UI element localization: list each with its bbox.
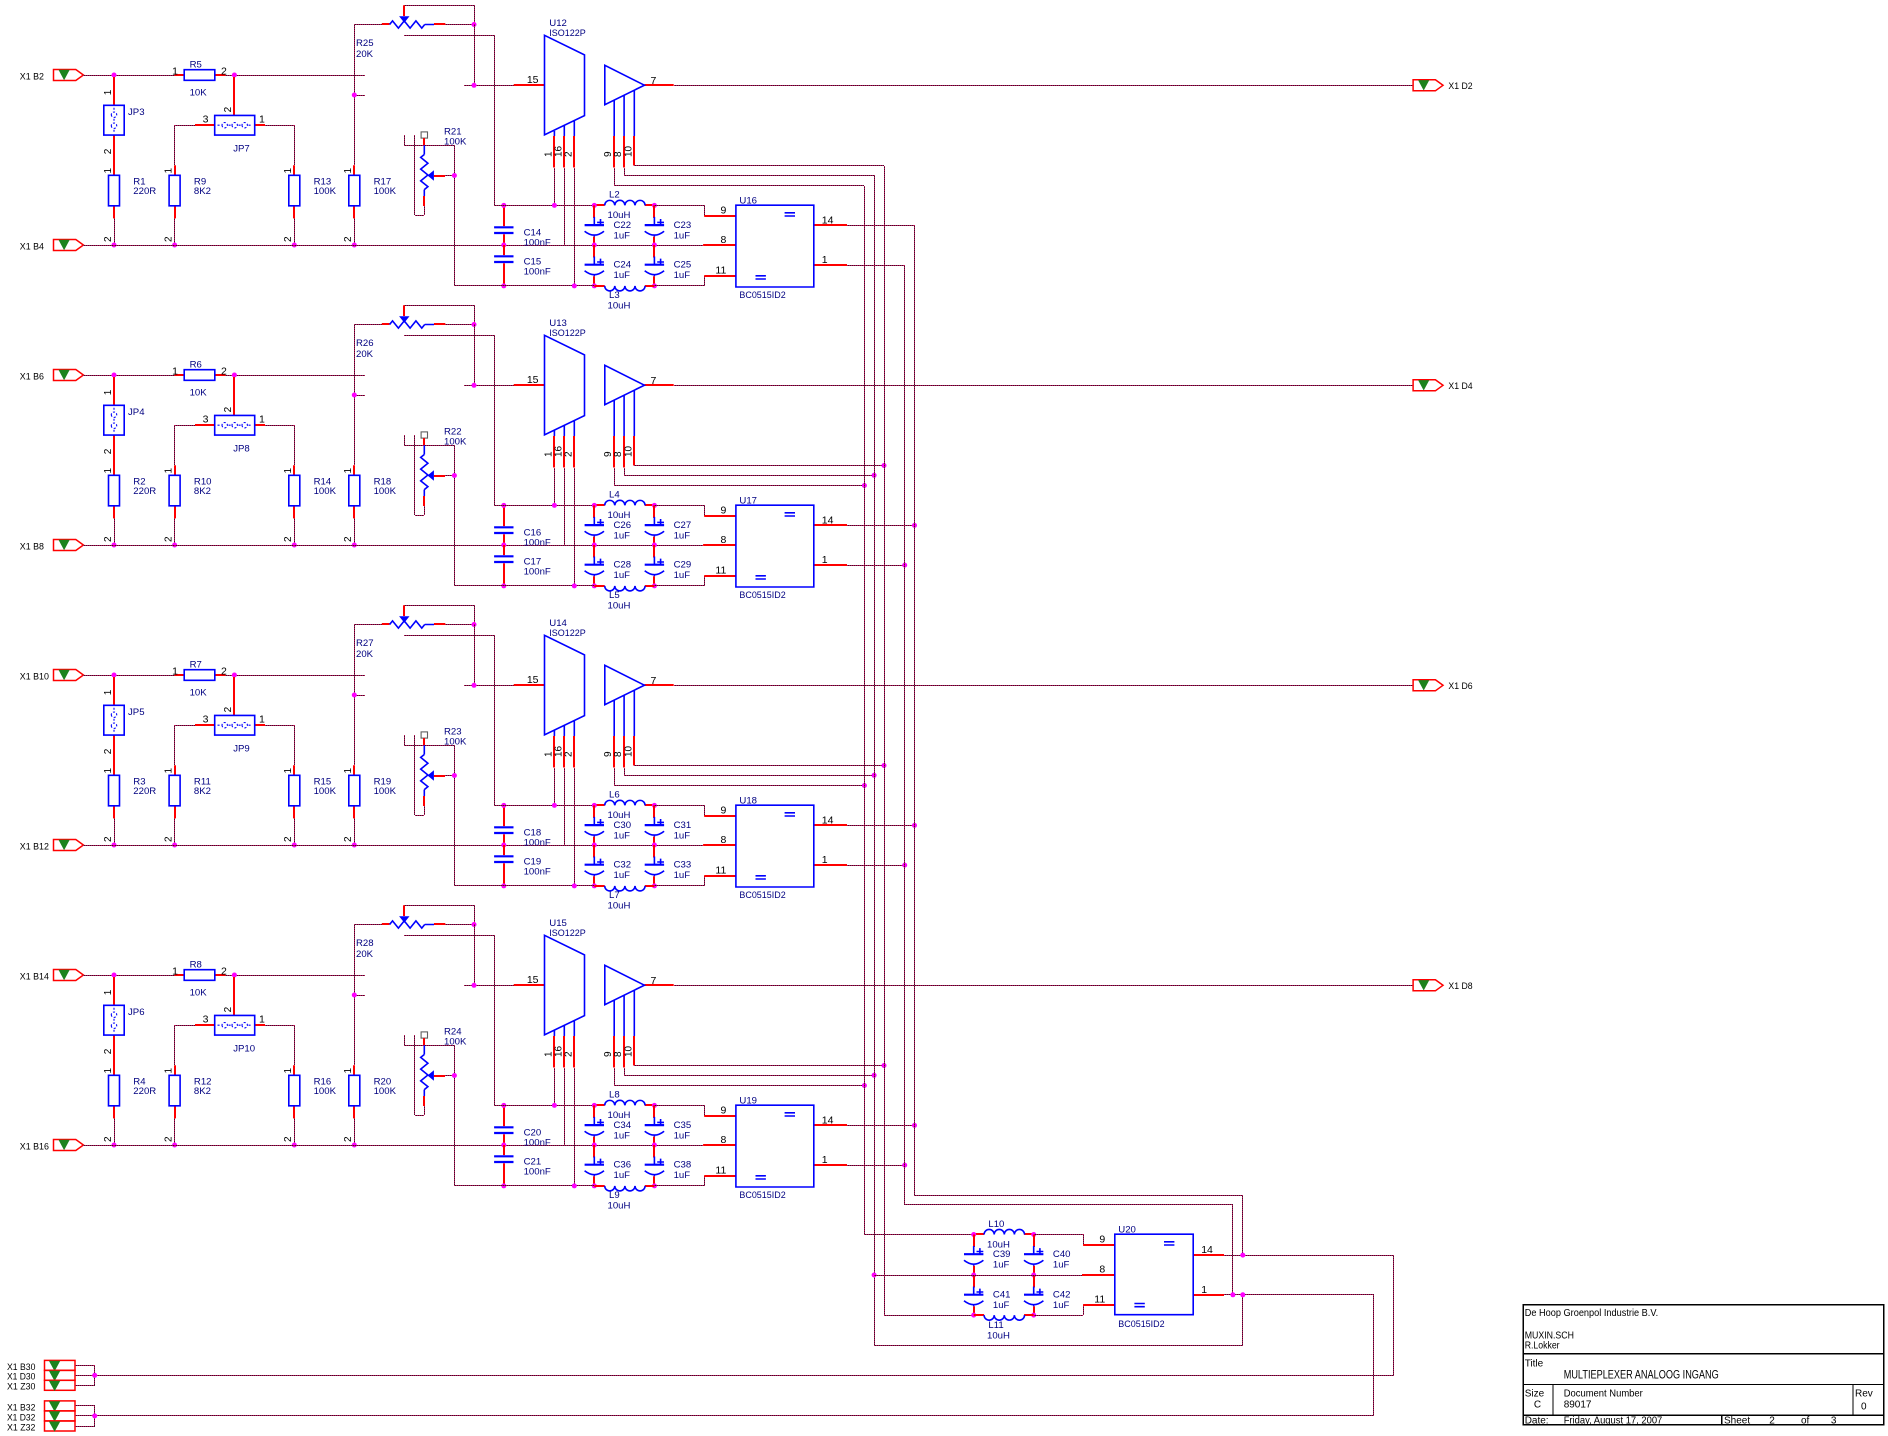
wire bus net pin14 vertical — [914, 225, 1243, 1255]
svg-text:1uF: 1uF — [993, 1260, 1010, 1271]
label X1 B2 — [20, 71, 44, 82]
svg-text:10uH: 10uH — [608, 601, 631, 612]
svg-text:100nF: 100nF — [524, 1167, 551, 1178]
svg-text:BC0515ID2: BC0515ID2 — [739, 1190, 785, 1201]
svg-text:220R: 220R — [133, 1086, 156, 1097]
capacitor C25 — [645, 245, 692, 288]
svg-text:L4: L4 — [609, 490, 620, 501]
svg-text:11: 11 — [715, 865, 726, 877]
svg-text:220R: 220R — [133, 186, 156, 197]
wire group B32 tie — [75, 1406, 97, 1427]
svg-text:20K: 20K — [356, 49, 374, 60]
svg-text:20K: 20K — [356, 649, 374, 660]
svg-text:MULTIEPLEXER ANALOOG INGANG: MULTIEPLEXER ANALOOG INGANG — [1564, 1369, 1719, 1381]
svg-text:2: 2 — [221, 365, 227, 377]
svg-text:L2: L2 — [609, 190, 620, 201]
wire net X1 D30 row — [95, 1255, 1394, 1376]
wire net X1 B6 row — [83, 373, 365, 378]
svg-text:100nF: 100nF — [524, 267, 551, 278]
svg-text:of: of — [1801, 1416, 1810, 1427]
svg-text:8K2: 8K2 — [194, 1086, 211, 1097]
svg-text:1uF: 1uF — [674, 870, 691, 881]
wire pot junction to U pin15 (block 4) — [464, 924, 514, 988]
connector X1 B12 — [54, 840, 84, 851]
svg-text:Document Number: Document Number — [1564, 1388, 1644, 1399]
svg-text:Title: Title — [1525, 1358, 1544, 1369]
connector X1 B8 — [54, 540, 84, 551]
dc-dc converter U17 wiring — [654, 495, 917, 601]
svg-text:2: 2 — [223, 406, 234, 412]
wire row C block 3 — [454, 883, 594, 888]
capacitor C36 — [585, 1145, 632, 1188]
svg-text:C30: C30 — [614, 820, 632, 831]
svg-text:2: 2 — [103, 1048, 114, 1054]
svg-text:2: 2 — [343, 536, 354, 542]
inductor L5 — [594, 586, 654, 612]
inductor L9 — [594, 1186, 654, 1212]
svg-text:ISO122P: ISO122P — [549, 28, 586, 39]
svg-text:7: 7 — [651, 675, 657, 687]
svg-text:JP5: JP5 — [128, 707, 145, 718]
connector X1 D2 — [1413, 80, 1443, 91]
svg-text:15: 15 — [527, 974, 539, 986]
svg-text:7: 7 — [651, 75, 657, 87]
op-amp U15 — [514, 918, 674, 1186]
svg-text:1uF: 1uF — [614, 570, 631, 581]
svg-text:2: 2 — [1769, 1416, 1775, 1427]
svg-text:8: 8 — [720, 234, 726, 246]
svg-text:JP4: JP4 — [128, 407, 145, 418]
svg-text:2: 2 — [343, 836, 354, 842]
capacitor C39 — [964, 1235, 1011, 1278]
svg-text:X1 B4: X1 B4 — [20, 241, 45, 252]
svg-text:10K: 10K — [190, 87, 208, 98]
svg-text:1: 1 — [259, 413, 265, 425]
svg-text:9: 9 — [720, 805, 726, 817]
connector X1 B6 — [54, 370, 84, 381]
svg-text:U17: U17 — [739, 495, 757, 506]
svg-text:C35: C35 — [674, 1120, 692, 1131]
label X1 D30 — [7, 1372, 35, 1382]
inductor L8 — [592, 1090, 657, 1122]
svg-text:15: 15 — [527, 674, 539, 686]
resistor R3 — [103, 775, 157, 847]
resistor R11 — [163, 775, 211, 847]
label X1 D32 — [7, 1412, 35, 1422]
svg-text:1: 1 — [283, 468, 294, 474]
svg-text:20K: 20K — [356, 949, 374, 960]
capacitor C26 — [585, 505, 632, 547]
wire row A block 3 — [494, 803, 594, 808]
svg-text:L6: L6 — [609, 790, 620, 801]
svg-text:10uH: 10uH — [608, 901, 631, 912]
wire row A block 1 — [494, 203, 594, 208]
label X1 B30 — [7, 1362, 35, 1372]
svg-text:X1 Z30: X1 Z30 — [7, 1382, 35, 1392]
svg-text:C23: C23 — [674, 220, 692, 231]
svg-text:3: 3 — [1831, 1416, 1837, 1427]
svg-text:C25: C25 — [674, 260, 692, 271]
jumper JP10 wiring — [163, 977, 294, 1075]
svg-text:JP3: JP3 — [128, 107, 145, 118]
svg-text:X1 B6: X1 B6 — [20, 371, 44, 382]
resistor R18 column — [343, 324, 397, 548]
svg-text:BC0515ID2: BC0515ID2 — [739, 290, 785, 301]
inductor L7 — [594, 886, 654, 912]
svg-text:1uF: 1uF — [614, 231, 631, 242]
connector X1 B32 — [45, 1401, 76, 1411]
svg-text:L9: L9 — [609, 1190, 620, 1201]
wire net X1 B2 row — [83, 73, 365, 78]
svg-text:1: 1 — [822, 554, 828, 566]
svg-text:1uF: 1uF — [614, 531, 631, 542]
svg-text:1: 1 — [343, 1068, 354, 1074]
resistor R15 — [283, 775, 337, 847]
resistor R19 column — [343, 624, 397, 848]
jumper JP3 — [103, 77, 145, 175]
label X1 B8 — [20, 541, 44, 552]
potentiometer R26 — [354, 305, 477, 360]
capacitor C22 — [585, 205, 632, 247]
wire bus net pin9 vertical — [864, 186, 974, 1235]
svg-text:1: 1 — [103, 989, 114, 995]
label X1 D6 — [1448, 681, 1472, 692]
resistor R20 column — [343, 924, 397, 1148]
svg-text:2: 2 — [163, 536, 174, 542]
svg-text:1uF: 1uF — [674, 231, 691, 242]
label X1 D4 — [1448, 381, 1473, 392]
svg-text:9: 9 — [720, 505, 726, 517]
resistor R1 — [103, 175, 157, 247]
wire net X1 D32 row — [95, 1295, 1374, 1416]
connector X1 D4 — [1413, 380, 1443, 391]
dc-dc converter U20 wiring — [1034, 1224, 1394, 1346]
wire pot junction to U pin15 (block 2) — [464, 324, 514, 388]
wire mid row filter — [874, 1275, 1082, 1277]
svg-text:R.Lokker: R.Lokker — [1525, 1341, 1560, 1352]
svg-text:De Hoop Groenpol Industrie B.V: De Hoop Groenpol Industrie B.V. — [1525, 1308, 1659, 1319]
svg-text:3: 3 — [203, 1013, 209, 1025]
svg-text:X1 B32: X1 B32 — [7, 1402, 35, 1412]
svg-text:U16: U16 — [739, 195, 757, 206]
svg-text:R27: R27 — [356, 638, 374, 649]
svg-text:100K: 100K — [374, 786, 397, 797]
svg-text:C22: C22 — [614, 220, 632, 231]
svg-text:JP9: JP9 — [233, 744, 250, 755]
label X1 B16 — [20, 1141, 49, 1152]
capacitor C18 — [494, 803, 551, 849]
potentiometer R21 100K — [421, 132, 427, 138]
svg-text:L8: L8 — [609, 1090, 620, 1101]
svg-text:3: 3 — [203, 413, 209, 425]
label X1 B6 — [20, 371, 44, 382]
capacitor C21 — [494, 1145, 551, 1188]
svg-text:100nF: 100nF — [524, 867, 551, 878]
svg-text:X1 B2: X1 B2 — [20, 71, 44, 82]
potentiometer R24 100K — [421, 1032, 427, 1038]
resistor R17 column — [343, 24, 397, 248]
svg-text:9: 9 — [720, 1105, 726, 1117]
svg-text:2: 2 — [563, 451, 574, 457]
wire U13 pins 9/8/10 to bus — [614, 463, 887, 488]
svg-text:L5: L5 — [609, 590, 620, 601]
potentiometer R23 100K — [421, 732, 427, 738]
svg-text:8: 8 — [720, 534, 726, 546]
svg-text:100K: 100K — [444, 437, 467, 448]
svg-text:Friday, August 17, 2007: Friday, August 17, 2007 — [1564, 1416, 1663, 1427]
svg-text:1: 1 — [283, 168, 294, 174]
svg-text:1uF: 1uF — [674, 1170, 691, 1181]
svg-text:2: 2 — [283, 536, 294, 542]
connector X1 B2 — [54, 70, 84, 81]
svg-text:X1 D4: X1 D4 — [1448, 381, 1473, 392]
svg-text:10: 10 — [623, 1045, 634, 1057]
svg-text:1uF: 1uF — [614, 1131, 631, 1142]
potentiometer R27 — [354, 605, 477, 660]
label X1 B12 — [20, 841, 49, 852]
wire group B30 tie — [75, 1365, 97, 1386]
svg-text:100nF: 100nF — [524, 1138, 551, 1149]
svg-text:2: 2 — [283, 236, 294, 242]
jumper JP4 — [103, 377, 145, 475]
svg-text:2: 2 — [163, 1136, 174, 1142]
resistor R5 — [172, 59, 227, 98]
inductor L2 — [592, 190, 657, 222]
inductor L6 — [592, 790, 657, 822]
wire U14 pins 9/8/10 to bus — [614, 763, 887, 788]
svg-text:1: 1 — [283, 768, 294, 774]
label X1 B14 — [20, 971, 50, 982]
svg-text:10: 10 — [623, 145, 634, 157]
svg-text:9: 9 — [1099, 1234, 1105, 1246]
svg-text:X1 D2: X1 D2 — [1448, 81, 1472, 92]
svg-text:1: 1 — [103, 168, 114, 174]
svg-text:X1 Z32: X1 Z32 — [7, 1422, 35, 1432]
svg-text:1: 1 — [259, 713, 265, 725]
capacitor C42 — [1024, 1275, 1071, 1318]
resistor R2 — [103, 475, 157, 547]
wire net X1 B8 row — [83, 545, 703, 547]
svg-text:R25: R25 — [356, 38, 374, 49]
svg-text:C26: C26 — [614, 520, 632, 531]
capacitor C40 — [1024, 1235, 1071, 1278]
svg-text:11: 11 — [715, 1165, 726, 1177]
wire U12 pins 9/8/10 to bus — [614, 166, 884, 187]
svg-text:JP8: JP8 — [233, 444, 250, 455]
svg-text:R5: R5 — [190, 59, 202, 70]
op-amp U14 — [514, 618, 674, 886]
svg-text:C33: C33 — [674, 860, 692, 871]
svg-text:1uF: 1uF — [614, 870, 631, 881]
label X1 D2 — [1448, 81, 1472, 92]
svg-text:2: 2 — [563, 1051, 574, 1057]
svg-text:2: 2 — [223, 1006, 234, 1012]
svg-text:JP7: JP7 — [233, 144, 250, 155]
svg-text:Date:: Date: — [1525, 1416, 1549, 1427]
title block text — [1525, 1308, 1873, 1427]
resistor R7 — [172, 659, 227, 698]
capacitor C15 — [494, 245, 551, 288]
svg-text:100K: 100K — [314, 786, 337, 797]
svg-text:BC0515ID2: BC0515ID2 — [739, 890, 785, 901]
svg-text:1: 1 — [343, 768, 354, 774]
inductor L3 — [594, 286, 654, 312]
svg-text:100K: 100K — [374, 1086, 397, 1097]
label X1 D8 — [1448, 981, 1472, 992]
svg-text:X1 D32: X1 D32 — [7, 1412, 35, 1422]
capacitor C17 — [494, 545, 551, 588]
svg-text:10K: 10K — [190, 687, 208, 698]
svg-text:X1 B30: X1 B30 — [7, 1362, 35, 1372]
svg-text:1: 1 — [163, 468, 174, 474]
svg-text:14: 14 — [822, 1114, 834, 1126]
svg-text:X1 B8: X1 B8 — [20, 541, 44, 552]
capacitor C31 — [645, 805, 692, 847]
title block — [1523, 1305, 1884, 1425]
potentiometer R23 wiring — [404, 727, 467, 886]
wire net X1 B16 row — [83, 1145, 703, 1147]
wire pot to row A (block 1) — [404, 35, 495, 205]
jumper JP7 wiring — [163, 77, 294, 175]
connector X1 B30 — [45, 1360, 76, 1370]
wire row A block 2 — [494, 503, 594, 508]
svg-text:1: 1 — [163, 168, 174, 174]
svg-text:1uF: 1uF — [614, 831, 631, 842]
svg-text:11: 11 — [715, 265, 726, 277]
capacitor C28 — [585, 545, 632, 588]
svg-text:1: 1 — [822, 1154, 828, 1166]
svg-text:1: 1 — [1201, 1284, 1207, 1296]
svg-text:1: 1 — [172, 365, 178, 377]
svg-text:X1 D30: X1 D30 — [7, 1372, 35, 1382]
svg-text:10: 10 — [623, 745, 634, 757]
svg-text:8: 8 — [720, 1134, 726, 1146]
connector X1 Z32 — [45, 1421, 76, 1431]
connector X1 D30 — [45, 1370, 76, 1380]
capacitor C30 — [585, 805, 632, 847]
svg-text:11: 11 — [715, 565, 726, 577]
svg-text:C36: C36 — [614, 1160, 632, 1171]
label X1 B32 — [7, 1402, 35, 1412]
svg-text:1: 1 — [172, 965, 178, 977]
wire net X1 D4 — [674, 385, 1413, 387]
capacitor C19 — [494, 845, 551, 888]
svg-text:7: 7 — [651, 375, 657, 387]
label X1 B10 — [20, 671, 49, 682]
wire net X1 D2 — [674, 85, 1413, 87]
svg-text:Size: Size — [1525, 1388, 1545, 1399]
svg-text:100nF: 100nF — [524, 567, 551, 578]
svg-text:U20: U20 — [1118, 1224, 1136, 1235]
svg-text:1: 1 — [822, 254, 828, 266]
resistor R10 — [163, 475, 211, 547]
svg-text:C38: C38 — [674, 1160, 692, 1171]
svg-text:2: 2 — [563, 751, 574, 757]
capacitor C32 — [585, 845, 632, 888]
svg-text:1: 1 — [163, 1068, 174, 1074]
svg-text:1: 1 — [822, 854, 828, 866]
svg-text:100K: 100K — [444, 737, 467, 748]
svg-text:2: 2 — [343, 1136, 354, 1142]
op-amp U12 — [514, 18, 674, 286]
inductor L10 — [971, 1219, 1036, 1251]
inductor L4 — [592, 490, 657, 522]
capacitor C35 — [645, 1105, 692, 1147]
svg-text:1uF: 1uF — [1053, 1260, 1070, 1271]
wire row A block 4 — [494, 1103, 594, 1108]
svg-text:C32: C32 — [614, 860, 632, 871]
wire net X1 B12 row — [83, 845, 703, 847]
svg-text:C34: C34 — [614, 1120, 632, 1131]
svg-text:X1 B16: X1 B16 — [20, 1141, 49, 1152]
svg-text:1: 1 — [259, 1013, 265, 1025]
svg-text:14: 14 — [822, 814, 834, 826]
wire net X1 B10 row — [83, 673, 365, 678]
svg-text:Sheet: Sheet — [1724, 1416, 1750, 1427]
resistor R8 — [172, 959, 227, 998]
wire pot to row A (block 2) — [404, 335, 495, 505]
resistor R9 — [163, 175, 211, 247]
svg-text:100K: 100K — [374, 186, 397, 197]
svg-text:9: 9 — [720, 205, 726, 217]
jumper JP9 wiring — [163, 677, 294, 775]
wire pot to row A (block 3) — [404, 635, 495, 805]
svg-text:1: 1 — [103, 468, 114, 474]
svg-text:7: 7 — [651, 975, 657, 987]
svg-text:10K: 10K — [190, 387, 208, 398]
svg-text:X1 D6: X1 D6 — [1448, 681, 1472, 692]
svg-text:2: 2 — [103, 236, 114, 242]
svg-text:BC0515ID2: BC0515ID2 — [739, 590, 785, 601]
svg-text:2: 2 — [163, 236, 174, 242]
resistor R16 — [283, 1075, 337, 1147]
svg-text:1: 1 — [163, 768, 174, 774]
svg-text:14: 14 — [822, 514, 834, 526]
svg-text:2: 2 — [103, 836, 114, 842]
svg-text:2: 2 — [563, 151, 574, 157]
connector X1 B14 — [54, 970, 84, 981]
jumper JP5 — [103, 677, 145, 775]
wire net X1 D6 — [674, 685, 1413, 687]
svg-text:2: 2 — [221, 965, 227, 977]
svg-text:15: 15 — [527, 374, 539, 386]
connector X1 D8 — [1413, 980, 1443, 991]
svg-text:100nF: 100nF — [524, 838, 551, 849]
svg-text:100nF: 100nF — [524, 238, 551, 249]
svg-text:C28: C28 — [614, 560, 632, 571]
svg-text:ISO122P: ISO122P — [549, 328, 586, 339]
svg-text:8: 8 — [720, 834, 726, 846]
svg-text:1uF: 1uF — [674, 1131, 691, 1142]
connector X1 D32 — [45, 1411, 76, 1421]
wire net X1 B4 row — [83, 245, 703, 247]
svg-text:X1 D8: X1 D8 — [1448, 981, 1472, 992]
potentiometer R25 — [354, 5, 477, 60]
svg-text:2: 2 — [103, 536, 114, 542]
svg-text:1: 1 — [259, 113, 265, 125]
op-amp U13 — [514, 318, 674, 586]
svg-text:X1 B10: X1 B10 — [20, 671, 49, 682]
potentiometer R21 wiring — [404, 127, 467, 286]
svg-text:2: 2 — [283, 836, 294, 842]
svg-text:1: 1 — [343, 468, 354, 474]
connector X1 B16 — [54, 1140, 84, 1151]
svg-text:1: 1 — [103, 689, 114, 695]
dc-dc converter U16 wiring — [654, 195, 914, 301]
svg-text:1: 1 — [103, 768, 114, 774]
svg-text:1: 1 — [172, 665, 178, 677]
potentiometer R28 — [354, 905, 477, 960]
